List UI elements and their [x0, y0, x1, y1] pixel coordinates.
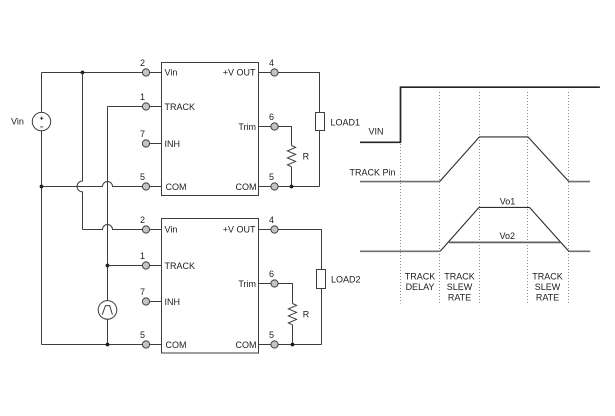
- wire TRACK net horizontal U2: [108, 265, 162, 267]
- svg-text:7: 7: [140, 129, 145, 139]
- U2 pin 5 left: [142, 341, 149, 348]
- wire COM rail of U2: [42, 344, 162, 346]
- U1 pin7 INH stub: [146, 143, 162, 145]
- wire U2 Trim to R: [259, 284, 293, 304]
- U1 pin 2: [142, 69, 149, 76]
- resistor LOAD1: [316, 113, 325, 131]
- label TRACK DELAY: [405, 272, 436, 293]
- waveform TRACK pin low left: [360, 181, 440, 183]
- svg-text:VIN: VIN: [369, 127, 384, 137]
- junction R2 COM: [291, 343, 295, 347]
- svg-text:LOAD1: LOAD1: [331, 117, 361, 127]
- wire U1 Trim to R: [259, 127, 292, 146]
- waveform Vo1 trapezoid: [440, 207, 569, 251]
- U1 pin 6: [271, 123, 278, 130]
- waveform Vo baseline left: [360, 250, 440, 252]
- svg-text:5: 5: [140, 330, 145, 340]
- wire to pin2 of U2 (hops over track net): [83, 225, 162, 230]
- svg-text:Vo1: Vo1: [500, 197, 516, 207]
- svg-text:6: 6: [269, 112, 274, 122]
- label TRACK SLEW RATE 2: [532, 272, 563, 303]
- svg-text:Vin: Vin: [11, 117, 24, 127]
- svg-text:Vin: Vin: [165, 68, 178, 78]
- resistor R of U1: [287, 146, 295, 167]
- svg-text:INH: INH: [165, 139, 181, 149]
- svg-text:5: 5: [269, 330, 274, 340]
- svg-text:INH: INH: [165, 297, 181, 307]
- U1 pin 5 right: [271, 183, 278, 190]
- svg-text:SLEW: SLEW: [447, 282, 473, 292]
- wire vertical drop to U2 Vin (hops over COM rail): [77, 73, 82, 230]
- junction R1 COM: [290, 185, 294, 189]
- junction COM rail at source return: [40, 185, 44, 189]
- timing grid dotted line t3: [527, 92, 529, 304]
- U2 pin 2: [142, 226, 149, 233]
- svg-text:1: 1: [140, 92, 145, 102]
- U2 pin 1: [142, 262, 149, 269]
- svg-text:DELAY: DELAY: [406, 282, 435, 292]
- svg-text:COM: COM: [166, 182, 187, 192]
- svg-text:Vo2: Vo2: [500, 231, 516, 241]
- resistor R of U2: [288, 304, 296, 325]
- U2 pin 4: [271, 226, 278, 233]
- svg-text:COM: COM: [236, 340, 257, 350]
- timing grid dotted line t2: [479, 92, 481, 304]
- U1 pin 1: [142, 103, 149, 110]
- waveform VIN: [360, 87, 600, 142]
- junction pulse return: [106, 343, 110, 347]
- waveform TRACK pin ramp: [440, 137, 569, 182]
- U1 pin 5 left: [142, 183, 149, 190]
- junction top rail: [81, 71, 85, 75]
- waveform Vo2 level: [449, 241, 561, 243]
- svg-text:5: 5: [140, 172, 145, 182]
- U2 pin 6: [271, 280, 278, 287]
- U1 pin 7: [142, 140, 149, 147]
- svg-text:+V OUT: +V OUT: [223, 225, 256, 235]
- svg-text:R: R: [303, 310, 310, 320]
- svg-text:Trim: Trim: [238, 122, 256, 132]
- wire LOAD1 to COM: [319, 131, 321, 187]
- svg-text:COM: COM: [236, 182, 257, 192]
- wire LOAD2 to COM: [321, 289, 323, 345]
- svg-text:+V OUT: +V OUT: [223, 68, 256, 78]
- svg-text:4: 4: [269, 58, 274, 68]
- svg-text:TRACK: TRACK: [532, 272, 563, 282]
- U2 pin7 INH stub: [146, 301, 162, 303]
- svg-text:TRACK: TRACK: [444, 272, 475, 282]
- U1 pin 4: [271, 69, 278, 76]
- wire TRACK net horizontal U1: [108, 106, 162, 108]
- svg-text:2: 2: [140, 58, 145, 68]
- svg-text:6: 6: [269, 269, 274, 279]
- timing grid dotted line t4: [568, 92, 570, 304]
- wire U2 +V OUT to LOAD2: [259, 230, 322, 270]
- svg-text:COM: COM: [166, 340, 187, 350]
- wire TRACK net vertical: [107, 107, 109, 301]
- svg-text:RATE: RATE: [536, 292, 559, 302]
- wire R to COM: [291, 167, 293, 187]
- timing grid dotted line t1: [439, 92, 441, 304]
- svg-text:Vin: Vin: [165, 225, 178, 235]
- svg-text:5: 5: [269, 172, 274, 182]
- svg-text:2: 2: [140, 215, 145, 225]
- svg-text:TRACK Pin: TRACK Pin: [350, 168, 396, 178]
- waveform TRACK pin low right: [569, 181, 590, 183]
- wire U1 +V OUT to LOAD1: [259, 73, 320, 113]
- svg-text:7: 7: [140, 287, 145, 297]
- wire U1 COM right: [259, 186, 320, 188]
- dc-dc module U1 body: [162, 63, 259, 196]
- label TRACK SLEW RATE 1: [444, 272, 475, 303]
- svg-text:RATE: RATE: [448, 292, 471, 302]
- dc-dc module U2 body: [162, 219, 259, 354]
- svg-text:1: 1: [140, 251, 145, 261]
- U2 pin 7: [142, 298, 149, 305]
- svg-text:Trim: Trim: [238, 279, 256, 289]
- pulse source V2 track drive: [98, 301, 117, 320]
- svg-text:SLEW: SLEW: [535, 282, 561, 292]
- U2 pin 5 right: [271, 341, 278, 348]
- timing grid dotted line t0: [400, 144, 402, 304]
- resistor LOAD2: [317, 270, 326, 289]
- wire U2 COM right: [259, 344, 322, 346]
- wire R2 to COM: [292, 325, 294, 345]
- wire Vin+ top rail to pin2 of U1: [42, 72, 162, 74]
- svg-text:TRACK: TRACK: [405, 272, 436, 282]
- wire pulse source to COM rail: [107, 319, 109, 344]
- waveform Vo baseline right: [569, 250, 590, 252]
- svg-text:TRACK: TRACK: [165, 261, 196, 271]
- svg-text:R: R: [303, 151, 310, 161]
- wire COM rail of U1 (hops over track net): [42, 182, 162, 187]
- voltage source V1 Vin: [32, 73, 50, 345]
- junction TRACK net at U2: [106, 264, 110, 268]
- svg-text:4: 4: [269, 215, 274, 225]
- svg-text:TRACK: TRACK: [165, 102, 196, 112]
- svg-text:LOAD2: LOAD2: [331, 275, 361, 285]
